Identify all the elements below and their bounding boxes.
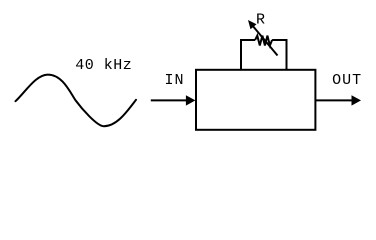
resistor R wiper arrow: [248, 20, 278, 56]
wire IN arrow: [151, 95, 196, 105]
resistor R zigzag: [255, 36, 272, 46]
main block: [196, 70, 315, 130]
wire OUT arrow: [315, 95, 361, 105]
resistor box (enclosure): [241, 40, 287, 70]
svg-text:IN: IN: [164, 72, 184, 89]
sine-wave source V1: [16, 75, 137, 127]
svg-text:40 kHz: 40 kHz: [75, 57, 132, 74]
svg-text:R: R: [256, 12, 265, 29]
svg-text:OUT: OUT: [332, 72, 362, 89]
